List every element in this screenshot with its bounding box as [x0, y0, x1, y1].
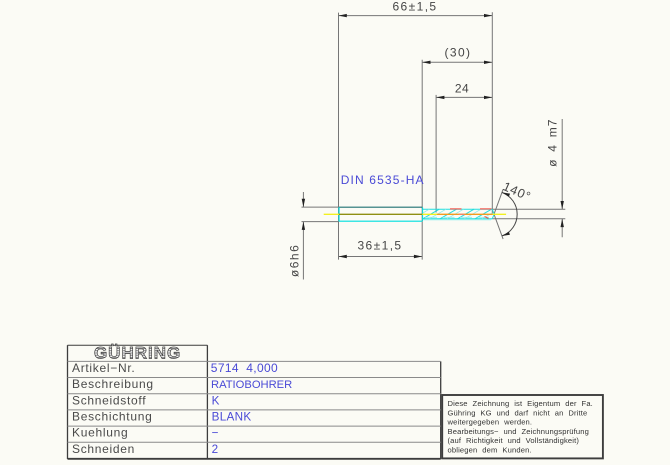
red margin segment 1 [450, 208, 462, 210]
svg-text:Beschichtung: Beschichtung [72, 410, 152, 424]
flute spiral lines [423, 209, 492, 219]
extension line flute 24 (x=436.1) [435, 95, 437, 213]
svg-text:(auf Richtigkeit und Vollständ: (auf Richtigkeit und Vollständigkeit) [448, 436, 580, 445]
red fleck on centerline [459, 213, 465, 215]
drill tip cone [492, 209, 494, 219]
centerline yellow past tip [493, 213, 507, 215]
svg-text:Bearbeitungs− und Zeichnungspr: Bearbeitungs− und Zeichnungsprüfung [448, 427, 590, 436]
table row line 5 [68, 425, 441, 427]
centerline yellow after shank [422, 213, 437, 215]
shank outline [339, 207, 423, 221]
table row line 4 [68, 409, 441, 411]
svg-text:Schneiden: Schneiden [72, 442, 135, 456]
svg-text:ø 4 m7: ø 4 m7 [545, 119, 559, 167]
svg-text:24: 24 [455, 82, 469, 96]
svg-text:ø6h6: ø6h6 [287, 244, 301, 277]
svg-text:GÜHRING: GÜHRING [94, 344, 181, 363]
dimension 36±1,5 [339, 239, 423, 259]
extension line left (shank start x=338.5) [338, 13, 340, 260]
centerline orange through flutes [437, 213, 493, 215]
dimension ø 4 m7 [492, 119, 565, 238]
svg-text:BLANK: BLANK [212, 411, 252, 424]
flute secondary spiral lines [423, 209, 492, 219]
svg-text:Artikel−Nr.: Artikel−Nr. [72, 361, 135, 375]
extension line shank end (x=422.2) [421, 60, 423, 260]
red margin segment 2 [480, 208, 492, 210]
svg-text:5714 4,000: 5714 4,000 [211, 361, 278, 375]
dimension ø6h6 [287, 192, 339, 280]
svg-text:Diese Zeichnung ist Eigentum d: Diese Zeichnung ist Eigentum der Fa. [448, 399, 593, 408]
svg-text:RATIOBOHRER: RATIOBOHRER [211, 379, 292, 391]
svg-text:2: 2 [212, 443, 219, 456]
table row line 6 [68, 441, 441, 443]
centerline olive through shank [339, 213, 422, 215]
table row line 3 [68, 393, 441, 395]
table right edge [440, 361, 442, 459]
angle dimension 140° [494, 179, 533, 239]
svg-text:Gühring KG und darf nicht an D: Gühring KG und darf nicht an Dritte [448, 408, 588, 417]
svg-text:36±1,5: 36±1,5 [357, 239, 402, 253]
dimension 24 [436, 82, 492, 99]
table bottom line [68, 458, 441, 460]
svg-text:obliegen dem Kunden.: obliegen dem Kunden. [448, 446, 532, 455]
svg-text:weitergegeben werden.: weitergegeben werden. [447, 418, 533, 427]
table row line 2 [68, 377, 441, 379]
table row line 1 [68, 360, 441, 362]
svg-text:Beschreibung: Beschreibung [72, 377, 154, 391]
table outer left edge [67, 345, 69, 459]
svg-text:66±1,5: 66±1,5 [392, 0, 437, 14]
table top line (logo box) [68, 344, 208, 346]
svg-text:−: − [212, 427, 219, 440]
centerline yellow left segment [324, 213, 339, 215]
disclaimer text [447, 399, 593, 455]
svg-text:Kuehlung: Kuehlung [72, 426, 128, 440]
extension line drill tip (x=492.3) [491, 12, 493, 213]
flute body outline [423, 209, 492, 220]
table column separator [206, 345, 208, 459]
svg-text:(30): (30) [445, 46, 472, 60]
svg-text:Schneidstoff: Schneidstoff [72, 393, 146, 407]
flute inner bottom segments [425, 216, 489, 218]
svg-text:DIN 6535-HA: DIN 6535-HA [341, 173, 425, 187]
disclaimer box [442, 395, 603, 458]
dimension (30) [422, 46, 492, 65]
svg-text:K: K [212, 394, 220, 407]
dimension 66±1,5 [339, 0, 493, 17]
red fleck lower right [485, 217, 489, 219]
